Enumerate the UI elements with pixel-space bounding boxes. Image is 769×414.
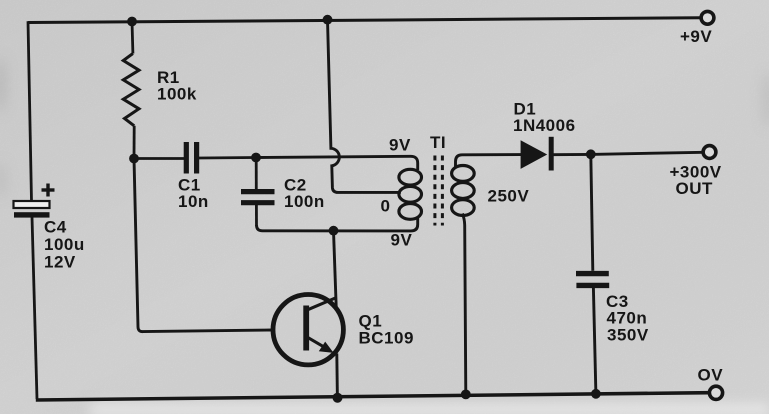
node C2/collector junction	[329, 226, 339, 236]
node emitter/bottom-rail junction	[333, 393, 343, 403]
wire collector	[334, 231, 337, 307]
svg-text:OV: OV	[698, 366, 724, 385]
wire center-tap feed with hop	[328, 20, 401, 193]
svg-text:+9V: +9V	[680, 27, 712, 46]
terminal 0V	[698, 366, 724, 400]
transformer T1 primary winding	[399, 169, 422, 219]
node R1/C1/base junction	[129, 154, 139, 164]
terminal +300V OUT	[670, 146, 722, 199]
svg-text:BC109: BC109	[359, 329, 414, 348]
node D1/C3 junction	[586, 149, 596, 159]
svg-text:TI: TI	[430, 133, 446, 152]
svg-text:100k: 100k	[157, 85, 197, 104]
transformer T1 core	[435, 156, 443, 226]
svg-text:100n: 100n	[284, 192, 325, 211]
transformer T1 secondary winding	[452, 166, 475, 216]
wire base from R1/C1 node	[134, 159, 273, 332]
node secondary/bottom-rail junction	[461, 390, 471, 400]
svg-text:9V: 9V	[389, 135, 411, 154]
wire bottom rail	[36, 393, 709, 400]
svg-text:100u: 100u	[44, 235, 85, 254]
wire secondary bottom to bottom rail	[463, 214, 466, 395]
capacitor C1	[134, 142, 256, 211]
svg-text:12V: 12V	[44, 253, 76, 272]
svg-text:1N4006: 1N4006	[513, 116, 576, 135]
wire secondary top to D1	[456, 155, 522, 168]
capacitor C2	[241, 158, 325, 227]
svg-text:10n: 10n	[178, 192, 209, 211]
wire left rail lower	[32, 217, 37, 399]
wire emitter	[335, 354, 339, 398]
wire C2 bottom to transformer bottom tap	[257, 218, 418, 231]
terminal +9V	[680, 11, 714, 46]
node C3/bottom-rail junction	[591, 389, 601, 399]
node center-tap feed (junction on top rail)	[323, 15, 333, 25]
node C1/C2/feedback junction	[251, 153, 261, 163]
svg-text:350V: 350V	[607, 326, 649, 345]
svg-text:9V: 9V	[391, 230, 413, 249]
wire feedback to transformer top tap	[256, 156, 418, 170]
svg-text:0: 0	[381, 196, 391, 215]
wire left rail upper	[28, 21, 32, 201]
transistor Q1	[273, 295, 414, 365]
svg-text:C4: C4	[44, 218, 67, 237]
node R1 top (junction on top rail)	[127, 17, 137, 27]
resistor R1	[123, 22, 197, 159]
capacitor C3	[576, 154, 649, 393]
svg-text:250V: 250V	[488, 186, 530, 205]
capacitor C4	[14, 184, 85, 272]
diode D1	[513, 100, 591, 171]
wire D1 to +300V terminal	[591, 152, 703, 154]
wire top rail	[28, 18, 700, 23]
svg-text:OUT: OUT	[676, 179, 714, 198]
